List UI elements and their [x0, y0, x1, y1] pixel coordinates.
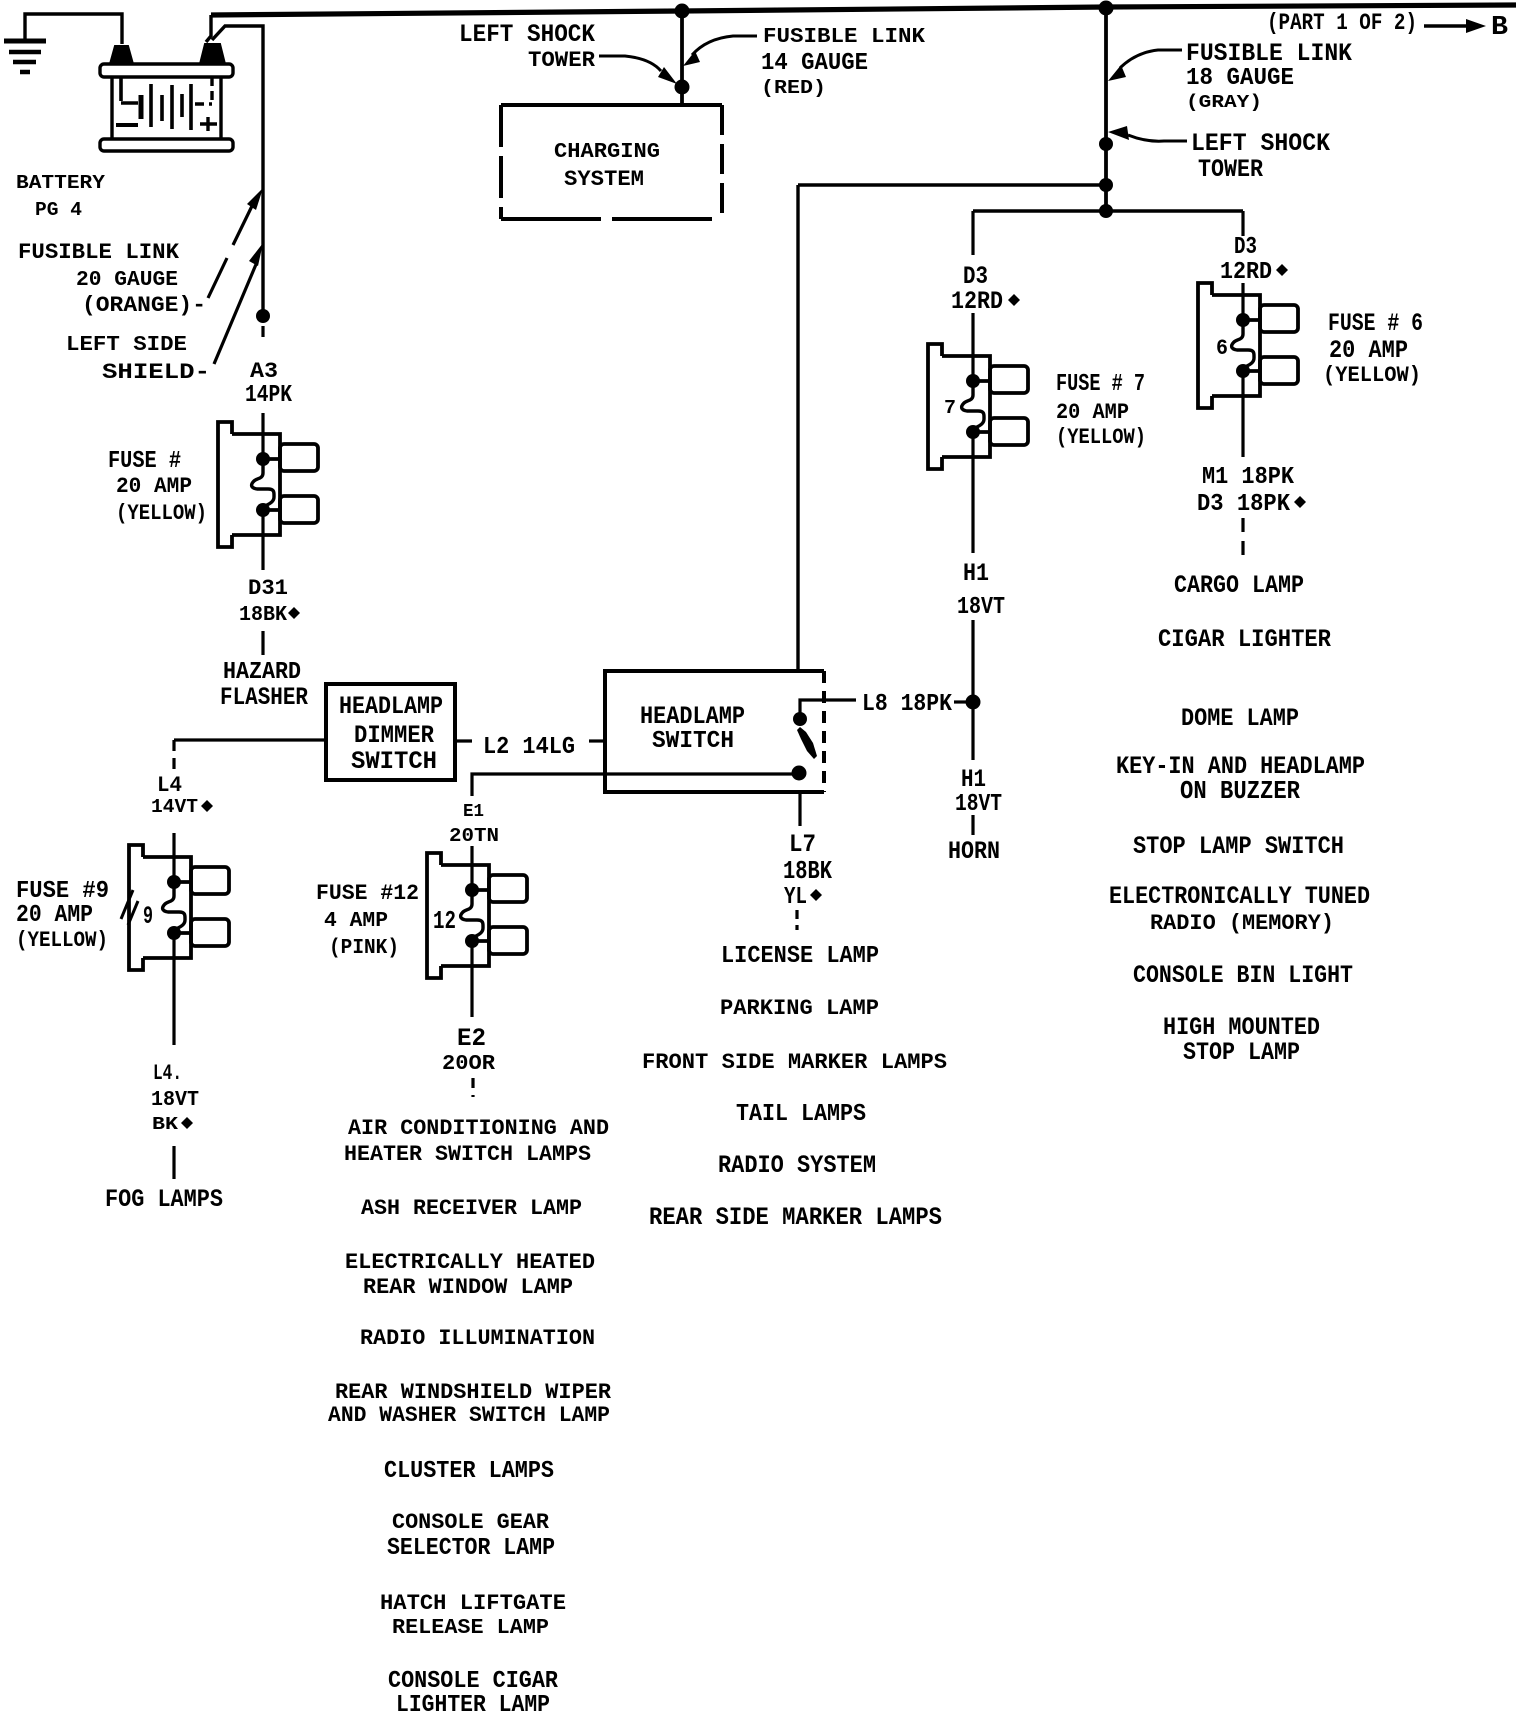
node fuse bus junction [1099, 204, 1113, 218]
svg-text:SWITCH: SWITCH [351, 747, 437, 776]
wire D3 to fuse 7 upper [971, 211, 974, 255]
svg-text:L4: L4 [157, 773, 182, 798]
wire L2 right stub [589, 739, 605, 742]
svg-text:L7: L7 [789, 830, 816, 859]
wire headlamp switch feed horizontal [798, 183, 1106, 186]
svg-text:6: 6 [1216, 336, 1228, 361]
svg-text:(YELLOW): (YELLOW) [1056, 425, 1146, 450]
svg-text:D3 18PK: D3 18PK [1197, 491, 1291, 518]
wire E2 dashed [471, 1078, 474, 1097]
node top bus / charging tap [675, 4, 690, 19]
node L8 junction [966, 695, 981, 710]
wire L2 left stub [455, 739, 472, 742]
svg-text:REAR WINDOW LAMP: REAR WINDOW LAMP [363, 1275, 573, 1300]
svg-text:LEFT SHOCK: LEFT SHOCK [459, 20, 595, 49]
svg-text:FLASHER: FLASHER [220, 683, 308, 712]
svg-text:FUSE #12: FUSE #12 [316, 881, 419, 906]
diamond D3 18PK [1294, 496, 1306, 508]
fuse F9 20A [129, 845, 229, 970]
wire to hazard flasher dashed [261, 631, 264, 655]
svg-text:FOG LAMPS: FOG LAMPS [105, 1185, 223, 1214]
leader left shock tower (right) [1128, 135, 1187, 141]
svg-text:PARKING LAMP: PARKING LAMP [720, 996, 879, 1021]
svg-text:FUSIBLE LINK: FUSIBLE LINK [763, 26, 925, 49]
node switch upper contact [793, 712, 807, 726]
svg-text:SWITCH: SWITCH [652, 728, 734, 755]
svg-text:20 AMP: 20 AMP [16, 902, 93, 929]
diamond 12RD (fuse 6) [1276, 264, 1288, 276]
fuse F1 20A [218, 422, 318, 547]
svg-text:18VT: 18VT [151, 1089, 199, 1112]
svg-text:H1: H1 [961, 765, 986, 794]
svg-text:ON BUZZER: ON BUZZER [1180, 776, 1300, 806]
diamond YL [810, 889, 822, 901]
svg-text:REAR SIDE MARKER LAMPS: REAR SIDE MARKER LAMPS [649, 1203, 942, 1232]
wire A3 dashed [261, 326, 264, 344]
wire into fuse 1 [261, 413, 264, 459]
diamond BK [181, 1117, 193, 1129]
svg-text:TAIL LAMPS: TAIL LAMPS [736, 1101, 866, 1128]
scan mark fuse 9 [121, 890, 138, 925]
wire top bus [211, 5, 1516, 15]
node charging splice [675, 80, 690, 95]
leader fusible link 20 gauge [208, 206, 252, 298]
svg-text:FUSE #: FUSE # [108, 448, 181, 475]
wire L4 dashed [172, 740, 175, 772]
svg-text:HEADLAMP: HEADLAMP [339, 692, 443, 721]
leader left side shield [214, 262, 257, 364]
arrowhead fusible link 20 gauge [247, 188, 263, 210]
wire fuse bus horizontal [973, 209, 1243, 212]
svg-text:HORN: HORN [948, 837, 1000, 866]
wire dimmer to L4 [174, 738, 326, 741]
svg-text:DIMMER: DIMMER [354, 721, 434, 750]
svg-text:CHARGING: CHARGING [554, 141, 660, 164]
svg-text:L2 14LG: L2 14LG [483, 734, 575, 761]
svg-text:PG 4: PG 4 [35, 199, 82, 221]
svg-text:CONSOLE CIGAR: CONSOLE CIGAR [388, 1668, 559, 1695]
wire into fuse 6 [1241, 283, 1244, 320]
wire into fuse 12 [470, 846, 473, 890]
svg-text:HATCH LIFTGATE: HATCH LIFTGATE [380, 1591, 566, 1616]
ground [4, 41, 46, 72]
node switch lower contact [792, 766, 807, 781]
wire to fog lamps [172, 1146, 175, 1179]
svg-text:M1 18PK: M1 18PK [1202, 464, 1295, 491]
wire cargo dashed [1241, 518, 1244, 560]
wire into fuse 7 [971, 313, 974, 381]
svg-text:LEFT SIDE: LEFT SIDE [66, 334, 187, 357]
wire charging system drop [680, 11, 684, 105]
svg-text:RADIO SYSTEM: RADIO SYSTEM [718, 1151, 876, 1180]
svg-text:HEADLAMP: HEADLAMP [640, 702, 745, 731]
svg-text:A3: A3 [250, 359, 278, 384]
svg-text:E2: E2 [457, 1024, 486, 1053]
headlamp switch box [605, 671, 824, 792]
svg-text:FUSIBLE LINK: FUSIBLE LINK [1186, 39, 1352, 68]
svg-text:FUSE # 6: FUSE # 6 [1328, 309, 1423, 338]
svg-text:YL: YL [784, 884, 807, 911]
arrowhead fusible link 18 gauge [1108, 65, 1126, 81]
wire into fuse 9 [172, 833, 175, 882]
svg-text:L8 18PK: L8 18PK [862, 691, 953, 718]
svg-text:FUSE # 7: FUSE # 7 [1056, 371, 1145, 398]
wire to horn [971, 815, 974, 835]
arrowhead left shock tower (top) [658, 67, 677, 84]
svg-text:REAR WINDSHIELD WIPER: REAR WINDSHIELD WIPER [335, 1380, 612, 1405]
svg-text:AIR CONDITIONING AND: AIR CONDITIONING AND [348, 1116, 609, 1141]
svg-text:BK: BK [152, 1115, 178, 1135]
wire L7 below switch [798, 792, 801, 826]
svg-text:(ORANGE)-: (ORANGE)- [82, 293, 206, 318]
wire arrow to B [1424, 24, 1468, 27]
svg-text:B: B [1491, 13, 1508, 43]
svg-text:(GRAY): (GRAY) [1186, 93, 1262, 113]
leader left shock tower (top) [599, 56, 661, 71]
svg-text:SHIELD-: SHIELD- [102, 360, 210, 385]
svg-text:STOP LAMP SWITCH: STOP LAMP SWITCH [1133, 832, 1344, 861]
svg-text:20TN: 20TN [449, 825, 499, 847]
svg-text:CONSOLE BIN LIGHT: CONSOLE BIN LIGHT [1133, 961, 1353, 990]
node A3 junction [256, 309, 270, 323]
switch blade [797, 727, 817, 759]
wire below fuse 1 [261, 510, 264, 570]
svg-text:SYSTEM: SYSTEM [564, 167, 644, 192]
svg-text:18 GAUGE: 18 GAUGE [1186, 65, 1294, 92]
svg-text:SELECTOR LAMP: SELECTOR LAMP [387, 1535, 555, 1562]
arrowhead left side shield [249, 243, 263, 266]
wire L7 dashed [795, 910, 798, 930]
svg-text:18VT: 18VT [957, 594, 1005, 621]
svg-text:RELEASE LAMP: RELEASE LAMP [392, 1617, 549, 1640]
svg-text:FUSIBLE LINK: FUSIBLE LINK [18, 240, 180, 265]
fuse F12 4A [427, 853, 527, 978]
svg-text:20 AMP: 20 AMP [116, 474, 192, 499]
svg-text:7: 7 [944, 397, 956, 419]
svg-text:TOWER: TOWER [528, 48, 596, 73]
svg-text:CLUSTER LAMPS: CLUSTER LAMPS [384, 1458, 554, 1485]
svg-text:(PART 1 OF 2): (PART 1 OF 2) [1267, 10, 1417, 36]
headlamp dimmer switch box [326, 684, 455, 780]
svg-text:DOME LAMP: DOME LAMP [1181, 704, 1299, 733]
svg-text:18VT: 18VT [955, 791, 1002, 818]
battery [100, 44, 233, 151]
leader fusible link 18 gauge [1120, 50, 1182, 68]
svg-text:LEFT SHOCK: LEFT SHOCK [1191, 129, 1330, 158]
svg-text:D3: D3 [1234, 234, 1257, 261]
node top bus / right drop [1099, 1, 1114, 16]
node left shock tower splice [1099, 137, 1113, 151]
svg-text:18BK: 18BK [783, 856, 832, 886]
arrowhead to B [1466, 19, 1486, 33]
svg-text:12RD: 12RD [951, 287, 1003, 316]
wire below fuse 7 [971, 432, 974, 553]
wire E1 from lower contact [472, 774, 799, 796]
svg-text:(YELLOW): (YELLOW) [1323, 363, 1421, 388]
svg-text:4 AMP: 4 AMP [324, 910, 388, 933]
svg-text:LICENSE LAMP: LICENSE LAMP [721, 943, 879, 970]
svg-text:9: 9 [143, 902, 153, 931]
svg-text:D31: D31 [248, 576, 288, 601]
wire battery negative to ground [25, 14, 122, 44]
svg-text:L4.: L4. [153, 1061, 182, 1086]
arrowhead fusible link 14 gauge [683, 51, 700, 66]
svg-text:(YELLOW): (YELLOW) [16, 928, 108, 953]
svg-text:ELECTRONICALLY TUNED: ELECTRONICALLY TUNED [1109, 882, 1370, 911]
svg-text:HAZARD: HAZARD [223, 659, 301, 686]
wire H1 to L8 node [971, 620, 974, 760]
wire below fuse 6 [1241, 371, 1244, 457]
svg-text:HEATER SWITCH LAMPS: HEATER SWITCH LAMPS [344, 1142, 591, 1167]
svg-text:STOP LAMP: STOP LAMP [1183, 1038, 1300, 1067]
svg-text:(RED): (RED) [761, 77, 826, 99]
svg-text:(YELLOW): (YELLOW) [116, 501, 207, 526]
svg-text:14 GAUGE: 14 GAUGE [761, 50, 868, 77]
svg-text:18BK: 18BK [239, 604, 287, 627]
wire battery positive to top bus [206, 15, 211, 42]
arrowhead left shock tower (right) [1108, 126, 1129, 140]
svg-text:20 GAUGE: 20 GAUGE [76, 269, 178, 292]
svg-text:14VT: 14VT [151, 796, 198, 818]
svg-text:20 AMP: 20 AMP [1329, 336, 1408, 365]
svg-text:20OR: 20OR [442, 1053, 495, 1076]
svg-text:CONSOLE GEAR: CONSOLE GEAR [392, 1510, 550, 1535]
wire battery positive to A3 chain [212, 26, 263, 316]
diamond 18BK [288, 607, 300, 619]
svg-text:RADIO (MEMORY): RADIO (MEMORY) [1150, 911, 1334, 936]
svg-text:12RD: 12RD [1220, 259, 1272, 286]
svg-text:ELECTRICALLY HEATED: ELECTRICALLY HEATED [345, 1250, 595, 1275]
wire L8 from upper contact [800, 700, 856, 719]
svg-text:RADIO ILLUMINATION: RADIO ILLUMINATION [360, 1326, 595, 1351]
svg-text:H1: H1 [963, 559, 989, 588]
svg-text:FRONT SIDE MARKER LAMPS: FRONT SIDE MARKER LAMPS [642, 1050, 947, 1075]
diamond 12RD (fuse 7) [1008, 294, 1020, 306]
fuse F7 20A [928, 344, 1028, 469]
wire below fuse 12 [470, 941, 473, 1017]
wire right drop [1104, 8, 1108, 211]
fuse F6 20A [1198, 283, 1298, 408]
svg-text:(PINK): (PINK) [329, 937, 399, 960]
svg-text:LIGHTER LAMP: LIGHTER LAMP [396, 1692, 550, 1712]
svg-text:20 AMP: 20 AMP [1056, 400, 1129, 425]
svg-text:ASH RECEIVER LAMP: ASH RECEIVER LAMP [361, 1196, 582, 1221]
svg-text:E1: E1 [463, 802, 484, 822]
charging system box [501, 105, 722, 219]
svg-text:TOWER: TOWER [1198, 155, 1263, 184]
svg-text:BATTERY: BATTERY [16, 172, 106, 194]
svg-text:CIGAR LIGHTER: CIGAR LIGHTER [1158, 625, 1331, 654]
wire headlamp switch feed vertical [796, 185, 799, 671]
leader fusible link 14 gauge [692, 36, 757, 55]
wire below fuse 9 [172, 933, 175, 1045]
svg-text:AND WASHER SWITCH LAMP: AND WASHER SWITCH LAMP [328, 1403, 610, 1428]
svg-text:14PK: 14PK [245, 382, 292, 409]
svg-text:FUSE #9: FUSE #9 [16, 878, 109, 905]
svg-text:12: 12 [433, 906, 456, 936]
tick L8 to node [954, 700, 966, 703]
svg-text:CARGO LAMP: CARGO LAMP [1174, 571, 1304, 600]
node feed / right drop junction [1099, 178, 1113, 192]
diamond 14VT [201, 800, 213, 812]
wire fuse bus to fuse 6 drop [1241, 211, 1244, 236]
